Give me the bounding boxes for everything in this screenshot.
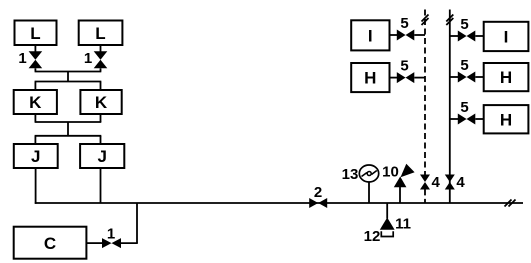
- svg-text:5: 5: [460, 16, 468, 33]
- svg-text:I: I: [368, 27, 373, 46]
- wire drop to J2: [100, 136, 102, 144]
- valve 5b: [397, 72, 415, 83]
- svg-text:2: 2: [314, 184, 322, 201]
- svg-text:1: 1: [18, 50, 26, 67]
- tank L2: [79, 21, 123, 46]
- center stub 2: [67, 122, 69, 136]
- relief valve 10: [394, 177, 407, 188]
- wire drop to J1: [34, 136, 36, 144]
- wire valve 10 to main pipe: [399, 187, 401, 203]
- svg-text:L: L: [30, 24, 40, 43]
- valve 2: [309, 198, 327, 208]
- svg-text:H: H: [500, 110, 512, 129]
- svg-text:5: 5: [400, 15, 408, 32]
- wire instrument 13 to main pipe: [368, 182, 370, 203]
- svg-text:10: 10: [382, 164, 399, 181]
- svg-text:C: C: [44, 234, 56, 253]
- wire valve 5b to dashed riser: [414, 77, 425, 79]
- wire J1 to main pipe: [35, 168, 37, 204]
- svg-text:5: 5: [460, 57, 468, 74]
- drain valve 11: [380, 218, 395, 230]
- wire H-left to valve 5b: [390, 77, 398, 79]
- svg-text:H: H: [500, 68, 512, 87]
- dashed riser: [424, 10, 426, 175]
- break symbol main pipe: [505, 200, 512, 207]
- svg-text:1: 1: [107, 226, 115, 243]
- wire L2 to valve 1b: [100, 45, 102, 52]
- wire solid riser to valve 5e: [450, 118, 458, 120]
- valve 5c: [458, 31, 476, 42]
- consumer H right 2: [484, 105, 529, 133]
- svg-text:1: 1: [84, 50, 92, 67]
- consumer H left: [351, 63, 389, 92]
- wire I-left to valve 5a: [390, 34, 398, 36]
- valve 1a: [29, 51, 43, 68]
- valve 1c: [102, 238, 121, 248]
- consumer I right: [484, 22, 529, 51]
- wire K1 down: [34, 114, 36, 122]
- wire K2 down: [100, 114, 102, 122]
- unit J1: [14, 144, 58, 168]
- center stub 1: [67, 72, 69, 82]
- wire valve 1a down: [34, 68, 36, 71]
- wire branch to C: [136, 203, 138, 243]
- valve 5a: [397, 30, 415, 41]
- svg-text:K: K: [95, 93, 108, 112]
- instrument 13: [359, 165, 378, 182]
- wire valve 5a to dashed riser: [414, 34, 425, 36]
- svg-text:5: 5: [400, 58, 408, 75]
- header pipe 4: [35, 135, 102, 137]
- wire solid riser to valve 5c: [450, 35, 458, 37]
- svg-text:13: 13: [342, 166, 359, 183]
- wire solid riser to valve 5d: [450, 76, 458, 78]
- svg-text:11: 11: [395, 216, 411, 233]
- svg-text:K: K: [29, 93, 42, 112]
- tank C: [14, 227, 87, 259]
- valve 4a: [420, 175, 430, 190]
- break symbol solid riser: [446, 15, 453, 22]
- svg-text:4: 4: [432, 174, 441, 191]
- wire valve 5c to consumer I right: [475, 35, 483, 37]
- wire valve 1c to tank C: [86, 242, 102, 244]
- wire drop to K1: [34, 82, 36, 91]
- valve 5d: [458, 72, 476, 83]
- svg-text:I: I: [504, 28, 509, 47]
- wire L1 to valve 1a: [34, 45, 36, 52]
- svg-text:12: 12: [364, 228, 381, 245]
- header pipe 2: [35, 81, 102, 83]
- main pipe: [35, 202, 523, 204]
- wire drop to K2: [100, 82, 102, 91]
- consumer I left: [351, 20, 389, 50]
- svg-text:4: 4: [456, 174, 465, 191]
- consumer H right 1: [484, 63, 529, 91]
- header pipe 1: [35, 71, 102, 73]
- wire valve 5e to consumer H right 2: [475, 118, 483, 120]
- wire drain branch: [386, 203, 388, 219]
- valve 4b: [445, 175, 455, 190]
- svg-text:J: J: [97, 147, 106, 166]
- wire valve 5d to consumer H right 1: [475, 76, 483, 78]
- solid riser: [449, 10, 451, 204]
- wire valve 1b down: [100, 68, 102, 71]
- svg-text:J: J: [31, 147, 40, 166]
- svg-text:H: H: [364, 69, 376, 88]
- unit J2: [80, 144, 124, 168]
- cap 12: [381, 231, 393, 236]
- tank L1: [15, 21, 57, 46]
- svg-text:L: L: [95, 24, 105, 43]
- break symbol dashed riser: [422, 15, 429, 22]
- unit K2: [80, 90, 121, 114]
- svg-text:5: 5: [460, 99, 468, 116]
- unit K1: [14, 90, 57, 114]
- header pipe 3: [35, 121, 102, 123]
- wire to valve 1c: [121, 242, 138, 244]
- wire J2 to main pipe: [100, 168, 102, 203]
- valve 1b: [94, 51, 108, 68]
- valve 5e: [458, 114, 476, 125]
